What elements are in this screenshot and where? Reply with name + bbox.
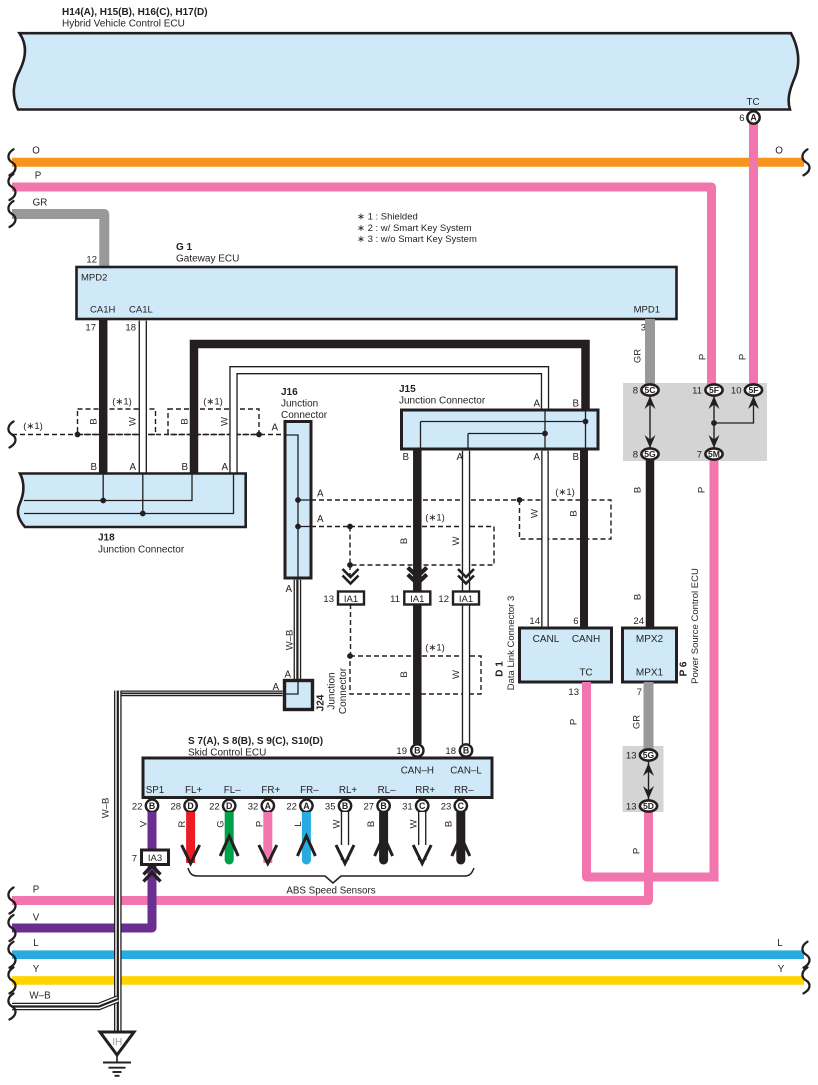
svg-text:13: 13 <box>626 802 637 813</box>
svg-text:FL–: FL– <box>224 785 241 796</box>
brace ABS Speed Sensors <box>188 868 474 883</box>
svg-text:IA1: IA1 <box>410 594 424 605</box>
shield wire dashed *1 to J16 pin A <box>12 434 284 436</box>
pin 22 circle B of skid ECU <box>146 800 158 812</box>
torn end Y right <box>802 967 809 993</box>
svg-text:6: 6 <box>573 616 578 627</box>
wire B black 5G to MPX2 <box>646 454 655 628</box>
svg-text:S 7(A), S 8(B), S 9(C), S10(D): S 7(A), S 8(B), S 9(C), S10(D) <box>188 736 323 747</box>
wire W-B bottom from left edge <box>12 999 118 1007</box>
torn end GR left <box>8 201 15 227</box>
torn end W-B left <box>8 994 15 1020</box>
svg-text:B: B <box>181 462 188 473</box>
svg-text:P: P <box>632 848 643 854</box>
svg-text:17: 17 <box>85 323 96 334</box>
connector 5F pin 10 <box>745 384 762 395</box>
svg-text:MPD2: MPD2 <box>81 273 107 284</box>
connector IA3 pin 7 box <box>142 850 169 865</box>
svg-text:B: B <box>399 671 410 677</box>
connector 5M pin 7 <box>705 448 722 459</box>
svg-text:B: B <box>633 594 644 600</box>
connector IA1-11 box <box>404 592 430 605</box>
svg-text:5F: 5F <box>709 385 719 395</box>
svg-text:B: B <box>569 510 580 516</box>
svg-text:P: P <box>697 487 708 493</box>
svg-text:Connector: Connector <box>338 667 349 714</box>
connector 5C pin 8 <box>641 384 658 395</box>
wire GR gray MPD1 pin3 to 5C <box>645 319 655 390</box>
svg-text:W: W <box>451 670 462 679</box>
wire Y yellow bottom <box>12 976 804 985</box>
svg-text:7: 7 <box>697 450 702 461</box>
svg-text:Connector: Connector <box>281 410 328 421</box>
svg-text:V: V <box>139 820 150 827</box>
junction dot shield 2 <box>256 432 262 438</box>
svg-text:CANL: CANL <box>533 634 560 645</box>
svg-text:Junction Connector: Junction Connector <box>98 545 185 556</box>
junction connector J18 box <box>18 474 246 528</box>
svg-text:5M: 5M <box>708 449 720 459</box>
svg-text:11: 11 <box>390 594 400 605</box>
wire W white J15 to skid CAN-L <box>462 451 470 744</box>
svg-text:C: C <box>419 801 426 811</box>
svg-text:RR–: RR– <box>454 785 474 796</box>
wire P pink FR+ arrow to sensor <box>263 812 272 863</box>
svg-text:CAN–H: CAN–H <box>401 766 434 777</box>
svg-text:(∗1): (∗1) <box>112 397 132 408</box>
svg-text:5F: 5F <box>748 385 758 395</box>
shield wire dashed J16 to CANL pair <box>311 499 520 501</box>
svg-text:A: A <box>284 670 291 681</box>
torn end L left <box>8 942 15 968</box>
shield box 2 dashed <box>168 409 259 435</box>
connector IA1-11 arrow <box>408 575 427 584</box>
torn end O right <box>802 149 809 175</box>
svg-text:5D: 5D <box>643 801 654 811</box>
shield wire dashed J16 to skid pair <box>311 526 350 528</box>
svg-text:B: B <box>572 399 579 410</box>
wire P pink horizontal turning down to 5F-11 <box>12 187 712 390</box>
svg-text:L: L <box>293 821 304 826</box>
svg-text:B: B <box>414 746 420 756</box>
wire B black CA1H pin17 to J18 B <box>99 319 108 474</box>
svg-text:A: A <box>221 462 228 473</box>
svg-text:B: B <box>402 452 409 463</box>
svg-text:24: 24 <box>633 616 644 627</box>
shield box around CANL CANH pair dashed <box>520 500 612 539</box>
connector IA1-12 box <box>453 592 479 605</box>
svg-text:32: 32 <box>248 801 259 812</box>
connector 5G pin 8 <box>641 448 658 459</box>
arrow 5C to 5G <box>649 392 651 452</box>
svg-text:(∗1): (∗1) <box>425 513 445 524</box>
wire W white RL+ arrow to sensor <box>341 812 349 860</box>
svg-text:Data Link Connector 3: Data Link Connector 3 <box>506 596 517 691</box>
wire B black J15 to skid CAN-H <box>413 449 422 744</box>
J18 internal bus A <box>24 474 234 514</box>
svg-text:12: 12 <box>438 594 449 605</box>
svg-text:P: P <box>35 171 42 182</box>
svg-text:Y: Y <box>778 964 785 975</box>
svg-text:MPX2: MPX2 <box>636 634 664 645</box>
svg-text:B: B <box>342 801 348 811</box>
svg-text:GR: GR <box>33 198 48 209</box>
wire L blue bottom <box>12 950 804 959</box>
svg-text:TC: TC <box>579 668 592 679</box>
svg-text:Junction Connector: Junction Connector <box>399 396 486 407</box>
ECU P6 MPX box <box>623 628 677 682</box>
svg-text:B: B <box>572 452 579 463</box>
connector panel gray 5G-13 5D-13 <box>623 746 664 812</box>
svg-text:CA1L: CA1L <box>129 305 153 316</box>
svg-text:A: A <box>533 452 540 463</box>
svg-text:TC: TC <box>746 97 759 108</box>
svg-text:Gateway ECU: Gateway ECU <box>176 254 239 265</box>
svg-text:5G: 5G <box>643 750 655 760</box>
svg-text:5C: 5C <box>645 385 656 395</box>
svg-text:A: A <box>271 423 278 434</box>
svg-text:22: 22 <box>286 801 297 812</box>
svg-text:J24: J24 <box>316 694 327 711</box>
svg-text:B: B <box>443 821 454 827</box>
svg-text:19: 19 <box>396 746 407 757</box>
ECU H14-H17 Hybrid Vehicle Control ECU band <box>14 33 798 109</box>
junction connector J24 box <box>285 681 313 710</box>
svg-text:RL+: RL+ <box>339 785 358 796</box>
svg-text:MPX1: MPX1 <box>636 668 664 679</box>
svg-text:11: 11 <box>692 386 702 397</box>
svg-text:SP1: SP1 <box>146 785 165 796</box>
wire W-B J24 to ground IH <box>116 691 283 697</box>
svg-text:W: W <box>409 819 420 828</box>
svg-text:Y: Y <box>33 964 40 975</box>
svg-text:B: B <box>149 801 155 811</box>
wire L blue FR- arrow from sensor <box>302 812 311 860</box>
svg-text:22: 22 <box>209 801 220 812</box>
junction dot branch <box>711 420 717 426</box>
pin 35 circle B of skid ECU <box>339 800 351 812</box>
J18 internal bus B <box>24 474 192 501</box>
pin 32 circle A of skid ECU <box>262 800 274 812</box>
arrow chevron IA3 <box>144 866 161 875</box>
wire P pink from TC circle A down to 5F-10 <box>749 121 758 390</box>
wire B black trunk J18 B to J15 B <box>194 344 586 474</box>
svg-text:A: A <box>533 399 540 410</box>
svg-text:14: 14 <box>529 616 540 627</box>
svg-text:B: B <box>399 538 410 544</box>
wire B black RR- arrow from sensor <box>456 812 465 860</box>
svg-text:8: 8 <box>633 386 638 397</box>
pin 27 circle B of skid ECU <box>377 800 389 812</box>
svg-text:IH: IH <box>112 1037 122 1048</box>
svg-text:GR: GR <box>632 715 643 729</box>
junction connector J15 box <box>402 410 599 449</box>
svg-text:(∗1): (∗1) <box>555 487 575 498</box>
svg-text:W: W <box>332 819 343 828</box>
svg-text:(∗1): (∗1) <box>23 421 43 432</box>
wire B black RL- arrow from sensor <box>379 812 388 860</box>
svg-text:G: G <box>216 820 227 827</box>
torn end V left <box>8 915 15 941</box>
svg-text:5G: 5G <box>644 449 656 459</box>
svg-text:P: P <box>569 719 580 725</box>
svg-text:Junction: Junction <box>281 399 318 410</box>
svg-text:R: R <box>177 820 188 827</box>
svg-text:13: 13 <box>626 751 637 762</box>
svg-text:12: 12 <box>86 255 97 266</box>
svg-text:35: 35 <box>325 801 336 812</box>
arrow 5G to 5D <box>648 760 650 802</box>
svg-text:FL+: FL+ <box>185 785 202 796</box>
svg-text:(∗1): (∗1) <box>203 397 223 408</box>
svg-text:RL–: RL– <box>378 785 397 796</box>
svg-text:CAN–L: CAN–L <box>450 766 482 777</box>
svg-text:Hybrid Vehicle Control ECU: Hybrid Vehicle Control ECU <box>62 19 185 30</box>
wire W white RR+ arrow to sensor <box>418 812 426 860</box>
svg-text:7: 7 <box>637 687 642 698</box>
svg-text:P: P <box>254 821 265 827</box>
svg-text:31: 31 <box>402 801 413 812</box>
svg-text:A: A <box>129 462 136 473</box>
junction dot shield 1 <box>75 432 81 438</box>
svg-text:18: 18 <box>445 746 456 757</box>
J15 internal wires <box>421 410 586 449</box>
ECU D1 Data Link Connector 3 box <box>520 628 612 682</box>
svg-text:J18: J18 <box>98 533 115 544</box>
wire O orange <box>12 158 804 167</box>
svg-text:A: A <box>285 584 292 595</box>
wire W white trunk J18 A to J15 A <box>234 370 546 474</box>
connector 5G pin 13 <box>640 749 657 760</box>
svg-text:O: O <box>32 146 40 157</box>
svg-text:B: B <box>380 801 386 811</box>
pin 19 circle B of skid ECU <box>411 744 423 756</box>
svg-text:A: A <box>303 801 310 811</box>
svg-text:8: 8 <box>633 450 638 461</box>
svg-text:W: W <box>220 417 231 426</box>
pin 28 circle D of skid ECU <box>184 800 196 812</box>
pin 31 circle C of skid ECU <box>416 800 428 812</box>
svg-text:G 1: G 1 <box>176 242 193 253</box>
J16 internal wire <box>285 435 311 578</box>
svg-text:27: 27 <box>364 801 375 812</box>
svg-text:W–B: W–B <box>29 991 51 1002</box>
svg-text:B: B <box>89 418 100 424</box>
wire P pink D1-TC down and right to 5M wire <box>587 682 719 877</box>
pin 22 circle D of skid ECU <box>223 800 235 812</box>
svg-text:∗ 3 : w/o Smart Key System: ∗ 3 : w/o Smart Key System <box>357 234 477 245</box>
ground IH symbol <box>100 1032 134 1055</box>
svg-text:22: 22 <box>132 801 143 812</box>
svg-text:CANH: CANH <box>572 634 600 645</box>
svg-text:FR+: FR+ <box>261 785 280 796</box>
svg-text:13: 13 <box>568 687 579 698</box>
svg-text:MPD1: MPD1 <box>634 305 660 316</box>
wire W white J15 to D1 CANL <box>541 451 549 628</box>
svg-text:Junction: Junction <box>327 672 338 709</box>
svg-text:P: P <box>698 354 709 360</box>
svg-text:B: B <box>366 821 377 827</box>
svg-text:J15: J15 <box>399 384 416 395</box>
shield box upper dashed around B W <box>350 527 494 566</box>
svg-text:(∗1): (∗1) <box>425 643 445 654</box>
pin 6 connector A circle <box>747 111 759 123</box>
connector IA1-13 arrow <box>343 576 359 584</box>
svg-text:10: 10 <box>731 386 742 397</box>
torn end P bottom left <box>8 888 15 914</box>
svg-text:18: 18 <box>125 323 136 334</box>
svg-text:Power Source Control ECU: Power Source Control ECU <box>690 568 701 684</box>
svg-text:6: 6 <box>739 113 744 124</box>
svg-text:23: 23 <box>441 801 452 812</box>
svg-text:D 1: D 1 <box>495 661 506 677</box>
svg-text:IA1: IA1 <box>344 594 358 605</box>
torn end O left <box>8 149 15 175</box>
svg-text:O: O <box>775 146 783 157</box>
svg-text:P: P <box>33 885 40 896</box>
svg-text:A: A <box>317 489 324 500</box>
arrow 5M to 5F branch <box>713 392 715 452</box>
wire V violet SP1 to IA3 <box>148 812 157 850</box>
shield box lower dashed around B W <box>350 656 481 694</box>
svg-text:∗ 2 : w/ Smart Key System: ∗ 2 : w/ Smart Key System <box>357 223 472 234</box>
wire GR gray to gateway pin 12 <box>12 214 104 267</box>
wire P pink 5D down to bottom P line <box>12 806 649 901</box>
svg-text:P: P <box>738 354 749 360</box>
svg-text:CA1H: CA1H <box>90 305 115 316</box>
svg-text:28: 28 <box>171 801 182 812</box>
svg-text:IA3: IA3 <box>148 853 162 864</box>
svg-text:RR+: RR+ <box>415 785 435 796</box>
svg-text:A: A <box>265 801 272 811</box>
wire V violet below IA3 to bottom V line <box>12 862 152 928</box>
svg-text:W: W <box>451 536 462 545</box>
svg-text:D: D <box>226 801 232 811</box>
connector IA1-13 box <box>338 592 364 605</box>
svg-text:P 6: P 6 <box>679 661 690 676</box>
pin 18 circle B of skid ECU <box>460 744 472 756</box>
svg-text:∗ 1 : Shielded: ∗ 1 : Shielded <box>357 212 418 223</box>
svg-text:H14(A), H15(B), H16(C), H17(D): H14(A), H15(B), H16(C), H17(D) <box>62 7 208 18</box>
wire W-B J16 to J24 <box>294 580 302 680</box>
svg-text:W: W <box>530 509 541 518</box>
connector 5D pin 13 <box>640 800 657 811</box>
torn end Y left <box>8 967 15 993</box>
ECU S7-S10 Skid Control ECU box <box>143 758 492 798</box>
svg-text:FR–: FR– <box>300 785 319 796</box>
wire R red FL+ arrow to sensor <box>186 812 195 863</box>
shield wire dashed IA1-13 to lower box <box>350 604 352 656</box>
svg-text:GR: GR <box>633 349 644 363</box>
wire G green FL- arrow from sensor <box>225 812 234 860</box>
wire W white CA1L pin18 to J18 A <box>139 321 147 474</box>
svg-text:C: C <box>458 801 465 811</box>
svg-text:B: B <box>90 462 97 473</box>
svg-text:7: 7 <box>132 854 137 865</box>
connector 5F pin 11 <box>705 384 722 395</box>
svg-text:ABS Speed Sensors: ABS Speed Sensors <box>286 886 375 897</box>
wire P pink 5M down to pink bus <box>710 454 719 877</box>
svg-text:B: B <box>180 418 191 424</box>
svg-text:J16: J16 <box>281 387 298 398</box>
svg-text:W–B: W–B <box>285 630 296 651</box>
ECU G1 Gateway ECU box <box>77 267 677 319</box>
torn end shield left <box>8 422 15 448</box>
shield box 1 dashed <box>78 409 156 435</box>
svg-text:W: W <box>128 417 139 426</box>
junction connector J16 box <box>285 422 311 579</box>
pin 23 circle C of skid ECU <box>455 800 467 812</box>
svg-text:13: 13 <box>323 594 334 605</box>
svg-text:W–B: W–B <box>101 798 112 819</box>
shield wire dashed to IA1-13 <box>349 565 351 577</box>
connector panel gray 5C 5F 5G 5M <box>623 383 767 461</box>
svg-text:B: B <box>463 746 469 756</box>
wire B black J15 to D1 CANH <box>580 449 588 628</box>
svg-text:B: B <box>633 487 644 493</box>
svg-text:A: A <box>750 113 757 123</box>
svg-text:L: L <box>777 938 783 949</box>
wire GR gray MPX1 to 5G-13 <box>644 682 654 755</box>
svg-text:A: A <box>317 514 324 525</box>
pin 22 circle A of skid ECU <box>300 800 312 812</box>
svg-text:IA1: IA1 <box>459 594 473 605</box>
torn end P left <box>8 174 15 200</box>
torn end L right <box>802 942 809 968</box>
svg-text:V: V <box>33 913 40 924</box>
svg-text:L: L <box>33 938 39 949</box>
svg-text:D: D <box>187 801 193 811</box>
connector IA1-12 arrow <box>458 576 474 584</box>
